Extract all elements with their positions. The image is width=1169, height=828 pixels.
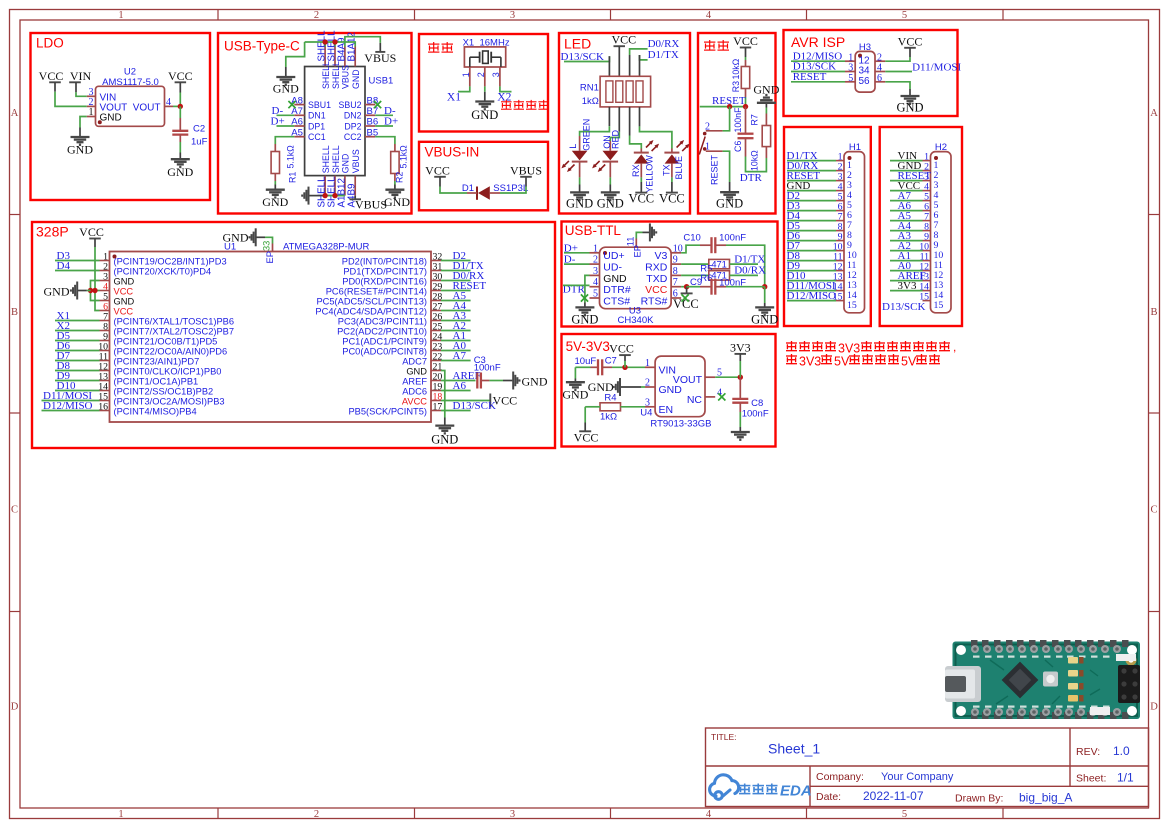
wire RESET right [441,290,471,292]
crystal pin 2 [484,67,486,86]
ground flag bottom left of USB1 [308,187,310,205]
ground symbol USB-TTL left [575,306,594,308]
wire D0/RX to RN1 pin3 [630,49,648,55]
junction 3V3 [738,375,743,380]
capacitor C8 [732,398,748,400]
svg-text:A: A [11,108,19,119]
H2 pin 9 [923,240,931,242]
connector H1 body [844,152,865,313]
wire VBUS pin to flag [345,37,380,47]
svg-text:TITLE:: TITLE: [711,732,737,742]
wire EP to GND flag USB-TTL [636,232,642,238]
wire RESET to H3 pin5 [791,81,845,83]
reset block title (fuwei) [704,41,715,43]
ground symbol USB-TTL right [755,306,774,308]
svg-text:VOUT: VOUT [673,374,703,386]
H2 block border [880,127,962,326]
wire D8 [55,370,100,372]
wire R6 to D0/RX [730,274,759,276]
junction RESET switch [727,104,732,109]
svg-text:VCC: VCC [659,191,685,205]
svg-text:GND: GND [431,432,458,446]
USB1 bottom pin A4B9 [354,176,356,196]
LED4 anode to VCC [671,164,673,178]
wire pin10 V3 to C10 [681,245,700,253]
wire D13/SCK to H3 pin3 [791,71,845,73]
GND bracket pins 3 and 5 [91,281,100,301]
wire pin2 to node [723,107,730,131]
H1 pin 11 [836,260,844,262]
svg-text:DTR#: DTR# [603,284,631,296]
ground symbol 328P bottom [435,424,454,426]
svg-text:GREEN: GREEN [581,119,591,151]
wire D4 [55,270,100,272]
svg-text:3V3: 3V3 [838,342,860,356]
H1 pin 2 [836,170,844,172]
U3 pin 9 RXD [671,263,681,265]
wire A7 to D- [277,114,295,116]
USB1 top pin SHELL [324,47,326,67]
wire H1 D11/MOSI [787,290,836,292]
resistor network RN1 body [600,76,651,107]
wire R1 to GND [274,174,276,182]
svg-text:471: 471 [711,259,727,269]
wire A7 right [441,360,471,362]
svg-text:(PCINT0/CLKO/ICP1)PB0: (PCINT0/CLKO/ICP1)PB0 [114,367,222,377]
svg-text:VCC: VCC [645,284,668,296]
svg-text:ATMEGA328P-MUR: ATMEGA328P-MUR [283,242,370,253]
svg-text:PD0(RXD/PCINT16): PD0(RXD/PCINT16) [342,277,427,287]
svg-text:RN1: RN1 [580,83,599,94]
svg-text:SHELL: SHELL [331,145,341,173]
crystal block border [419,34,548,132]
svg-text:2: 2 [705,121,710,132]
H1 pin 7 [836,220,844,222]
arduino nano board photo [945,640,1140,719]
U1 pin 31 PD1(TXD/PCINT17) [431,270,441,272]
wire H1 RESET [787,180,836,182]
USB-TTL block border [562,222,778,327]
svg-text:GND: GND [753,83,779,97]
wire H2 GND [890,170,923,172]
H1 pin 10 [836,250,844,252]
VCC flag below pin7 [686,287,688,294]
svg-text:VCC: VCC [628,191,654,205]
wire H2 A7 [890,200,923,202]
svg-text:YELLOW: YELLOW [644,155,654,193]
svg-text:(PCINT4/MISO)PB4: (PCINT4/MISO)PB4 [114,407,197,417]
ground symbol below C7 [566,381,585,383]
U3 pin1 dot [603,251,607,255]
wire top SHELL bus to GND [324,42,326,47]
svg-text:RX: RX [631,164,641,177]
junction GND bracket [88,288,93,293]
wire H2 RESET [890,180,923,182]
ground symbol AVR ISP [901,95,920,97]
svg-text:A: A [1150,108,1158,119]
svg-text:EP: EP [265,251,275,263]
svg-text:Company:: Company: [816,771,864,783]
wire C6 down to DTR [745,138,747,156]
LED3 anode to VCC [640,164,642,178]
capacitor C3 [476,373,478,389]
RN1 inner resistor boxes [606,81,613,102]
U1 pin 5 GND [100,300,110,302]
svg-text:R3: R3 [731,81,741,92]
capacitor C2 [172,130,188,132]
svg-text:5: 5 [902,10,907,21]
U3 EP pin 11 [635,239,637,248]
svg-text:C9: C9 [690,277,702,288]
svg-text:VCC: VCC [114,307,134,317]
wire RN1 pin3 to LED3 [630,136,642,149]
svg-text:1: 1 [89,107,94,118]
switch lever [703,132,707,136]
resistor R7 [765,147,767,158]
svg-text:U4: U4 [640,408,652,419]
svg-text:(PCINT19/OC2B/INT1)PD3: (PCINT19/OC2B/INT1)PD3 [114,257,227,267]
svg-text:D1: D1 [462,183,474,194]
U2 pin 2 VOUT left [87,105,96,107]
svg-text:4: 4 [706,10,712,21]
capacitor C9 [710,279,712,295]
wire X1 [55,320,100,322]
svg-text:2: 2 [314,10,319,21]
svg-text:PB5(SCK/PCINT5): PB5(SCK/PCINT5) [348,407,427,417]
svg-text:DTR: DTR [740,172,763,184]
U1 pin 27 PC4(ADC4/SDA/PCINT12) [431,310,441,312]
U3 pin 10 V3 [671,252,681,254]
switch SW pin 1 [706,150,723,152]
annotation text line1 (Chinese) [786,342,797,344]
LED4 cathode pin top [671,149,673,153]
svg-text:TXD: TXD [646,273,667,285]
svg-text:NC: NC [687,394,703,406]
wire node to C6 [745,107,747,134]
svg-text:1: 1 [118,809,123,820]
svg-text:GND: GND [223,231,249,245]
wire A3 right [441,320,471,322]
svg-text:BLUE: BLUE [674,156,684,180]
title block outline [706,728,1149,807]
svg-text:VCC: VCC [611,33,636,47]
3V3 flag [735,353,747,355]
svg-text:2022-11-07: 2022-11-07 [863,789,924,803]
svg-text:328P: 328P [36,224,69,240]
U2 pin 1 GND [87,116,96,118]
U4 pin 2 GND [645,386,655,388]
JLCEDA logo cloud icon [710,775,739,800]
svg-text:VCC: VCC [39,69,64,83]
U2 pin1 dot [98,120,102,124]
U3 pin 5 CTS# [590,297,600,299]
H1 pin 8 [836,230,844,232]
ground symbol LED2 [601,191,620,193]
ground flag at U3 EP (sideways right) [649,223,651,241]
svg-text:100nF: 100nF [719,232,746,243]
svg-text:AREF: AREF [402,377,427,387]
svg-text:VBUS: VBUS [355,197,387,211]
svg-text:PC3(ADC3/PCINT11): PC3(ADC3/PCINT11) [338,317,427,327]
U1 pin 11 (PCINT23/AIN1)PD7 [100,360,110,362]
svg-text:1.0: 1.0 [1113,744,1130,758]
U1 pin 20 AREF [431,380,441,382]
wire R5 to D1/TX [730,263,759,265]
svg-text:D: D [1150,702,1158,713]
wire pin5 VOUT to 3V3 [715,376,740,378]
5V-3V3 block border [562,334,776,447]
U1 pin 18 AVCC [431,400,441,402]
ground flag at EP (sideways) [255,228,257,246]
U4 pin 1 VIN [645,366,655,368]
chip U3 body CH340K [600,247,672,309]
ground symbol above R7 (inverted) [757,102,776,104]
VCC flag right [175,81,187,83]
svg-text:PC0(ADC0/PCINT8): PC0(ADC0/PCINT8) [342,347,427,357]
svg-text:CC2: CC2 [344,132,362,142]
H3 pin 6 [875,81,885,83]
svg-text:15: 15 [934,300,944,311]
svg-text:PC2(ADC2/PCINT10): PC2(ADC2/PCINT10) [337,327,427,337]
svg-text:5: 5 [848,73,853,84]
H3 pin 4 [875,71,885,73]
U1 pin 3 GND [100,280,110,282]
wire B7 to D- [375,114,393,116]
svg-text:SHELL: SHELL [331,61,341,89]
svg-text:VCC: VCC [425,163,450,177]
U2 pin 4 VOUT right [165,105,174,107]
svg-text:1kΩ: 1kΩ [600,411,617,422]
H1 pin 14 [836,290,844,292]
svg-text:VBUS-IN: VBUS-IN [425,145,480,160]
U3 pin 1 UD+ [590,252,600,254]
connector H2 body [931,152,952,313]
wire D6 [55,350,100,352]
svg-text:DP2: DP2 [344,121,361,131]
U1 pin 17 PB5(SCK/PCINT5) [431,410,441,412]
wire RN1 pin2 to LED2 [610,132,619,141]
svg-text:Your Company: Your Company [881,771,954,783]
H2 pin 12 [923,270,931,272]
junction at pin4 VCC C2 [178,104,183,109]
svg-text:2: 2 [314,809,319,820]
junction bottom SHELL 1 [322,193,327,198]
svg-text:GND: GND [406,367,427,377]
svg-text:PC6(RESET#/PCINT14): PC6(RESET#/PCINT14) [326,287,427,297]
wire D11/MOSI [42,400,100,402]
H1 pin 4 [836,190,844,192]
H3 pin 3 [845,71,855,73]
wire R4 left to VCC [585,406,600,408]
svg-text:REV:: REV: [1076,746,1100,758]
svg-text:GND: GND [67,143,93,157]
USB1 top pin B1A12 [354,47,356,67]
svg-text:(PCINT7/XTAL2/TOSC2)PB7: (PCINT7/XTAL2/TOSC2)PB7 [114,327,235,337]
capacitor C10 [710,237,712,253]
H1 pin 3 [836,180,844,182]
svg-text:C2: C2 [193,124,205,135]
H1 block border [784,127,871,326]
wire pin2 to GND [484,86,486,91]
LDO block border [31,33,211,200]
U1 pin 32 PD2(INT0/PCINT18) [431,260,441,262]
resistor R6 (box with 471) [709,271,730,280]
capacitor C7 [597,359,599,375]
H3 pin 1 [845,60,855,62]
AVR ISP block border [784,30,958,116]
U1 pin 30 PD0(RXD/PCINT16) [431,280,441,282]
U1 pin 8 (PCINT7/XTAL2/TOSC2)PB7 [100,330,110,332]
svg-text:3: 3 [645,397,650,408]
svg-text:D13/SCK: D13/SCK [882,301,925,313]
svg-text:100nF: 100nF [474,362,501,373]
svg-text:3V3: 3V3 [730,340,751,354]
junction top SHELL 2 [332,39,337,44]
svg-text:D: D [11,702,19,713]
wire H2 A6 [890,210,923,212]
wire pin9 RXD to R5 [681,263,709,265]
svg-text:4: 4 [593,277,598,288]
svg-text:L: L [568,144,578,149]
svg-text:DN2: DN2 [344,111,362,121]
wire R2 to GND [394,174,396,182]
no-connect X on A8 [288,101,295,108]
U3 pin 8 TXD [671,274,681,276]
svg-text:CH340K: CH340K [618,315,655,326]
wire D13/SCK to RN1 pin1 [564,56,609,61]
svg-text:U2: U2 [124,67,136,78]
wire D13/SCK row [441,410,471,412]
junction bottom SHELL 2 [332,193,337,198]
ground flag 328P left (sideways) [76,282,78,300]
title block dividers [706,765,1149,767]
USB1 top pin B4A9 [344,47,346,67]
junction top SHELL 1 [322,39,327,44]
U1 pin 19 ADC6 [431,390,441,392]
wire A1 right [441,340,471,342]
U1 pin 24 PC1(ADC1/PCINT9) [431,340,441,342]
USB-Type-C block border [218,33,412,214]
diode D1 cathode bar [476,187,478,200]
resistor R2 [391,152,399,174]
LED3 cathode pin top [640,149,642,153]
svg-text:UD+: UD+ [603,250,624,262]
svg-text:17: 17 [433,401,443,412]
wire A2 right [441,330,471,332]
svg-text:11: 11 [625,237,635,247]
wire H1 D1/TX [787,160,836,162]
H1 pin 15 [836,300,844,302]
wire H3 pin6 to GND [885,82,910,89]
wire RN1 pin1 to LED1 [580,126,610,136]
H1 pin 1 [836,160,844,162]
USB1 right pin B6 [365,125,375,127]
svg-text:LDO: LDO [36,36,64,51]
wire D2 right [441,260,471,262]
wire C8 to GND [739,403,741,412]
U1 pin 25 PC2(ADC2/PCINT10) [431,330,441,332]
wire pin3 to X2 label [500,86,512,91]
svg-text:B: B [11,307,18,318]
H1 pin 13 [836,280,844,282]
diode D1 pins [467,192,477,194]
resistor R1 [271,152,279,174]
U1 pin1 dot [113,255,117,259]
svg-text:PD2(INT0/PCINT18): PD2(INT0/PCINT18) [342,257,427,267]
svg-text:SBU1: SBU1 [308,100,331,110]
wire CC1 to R1 [275,137,294,144]
H2 pin 2 [923,170,931,172]
VIN flag [69,81,81,83]
wire RN1 pin4 to LED4 [640,126,672,148]
U1 pin 13 (PCINT1/OC1A)PB1 [100,380,110,382]
ground symbol LED1 [570,191,589,193]
VCC flag left [49,81,61,83]
VCC flag AVR ISP [904,47,916,49]
328P block border [32,222,555,448]
LED block border [559,33,690,214]
wire D7 [55,360,100,362]
wire pin1 to GND [723,151,730,182]
svg-text:VOUT: VOUT [133,102,161,113]
svg-text:DN1: DN1 [308,111,326,121]
svg-text:R4: R4 [604,393,616,404]
wire H2 3V3 [890,290,923,292]
junction VCC C7 [622,365,627,370]
svg-text:,: , [953,340,956,354]
svg-text:SBU2: SBU2 [339,100,362,110]
wire R7 up to GND [765,114,767,126]
svg-text:4: 4 [706,809,712,820]
svg-text:2: 2 [476,72,486,77]
LED1 cathode to GND [579,162,581,178]
reset block border [698,33,776,214]
wire VCC right down [179,82,181,92]
wire D12/MISO to H3 pin1 [791,60,845,62]
svg-text:3: 3 [593,266,598,277]
svg-text:H3: H3 [859,42,871,53]
svg-text:1: 1 [461,72,471,77]
wire AVCC to VCC flag [441,400,490,402]
RN1 long pins top (gray) [608,56,610,76]
svg-text:(PCINT3/OC2A/MOSI)PB3: (PCINT3/OC2A/MOSI)PB3 [114,397,225,407]
H1 pin 9 [836,240,844,242]
VBUS flag bottom [354,196,356,200]
annotation zidai dianrong (built-in capacitor) [501,101,512,103]
connector USB1 body [305,67,365,176]
svg-text:VCC: VCC [609,342,634,356]
U1 pin 23 PC0(ADC0/PCINT8) [431,350,441,352]
svg-text:GND: GND [341,154,351,174]
ground symbol USB-C top [276,76,295,78]
USB1 top pin SHELL [334,47,336,67]
wire pin4 to VCC junction [173,105,180,107]
wire H1 D8 [787,260,836,262]
svg-text:5: 5 [902,809,907,820]
wire A6 row [441,390,471,392]
wire C7 to junction [602,366,612,368]
U1 pin 2 (PCINT20/XCK/T0)PD4 [100,270,110,272]
svg-text:Date:: Date: [816,791,841,803]
H2 pin 4 [923,190,931,192]
svg-text:CC1: CC1 [308,132,326,142]
resistor R3 [741,67,749,89]
LED2 anode pin [609,141,611,151]
svg-text:1/1: 1/1 [1117,771,1134,785]
wire junction to C9 [687,286,700,288]
wire C10 to far right [715,244,726,246]
svg-text:GND: GND [566,196,593,210]
